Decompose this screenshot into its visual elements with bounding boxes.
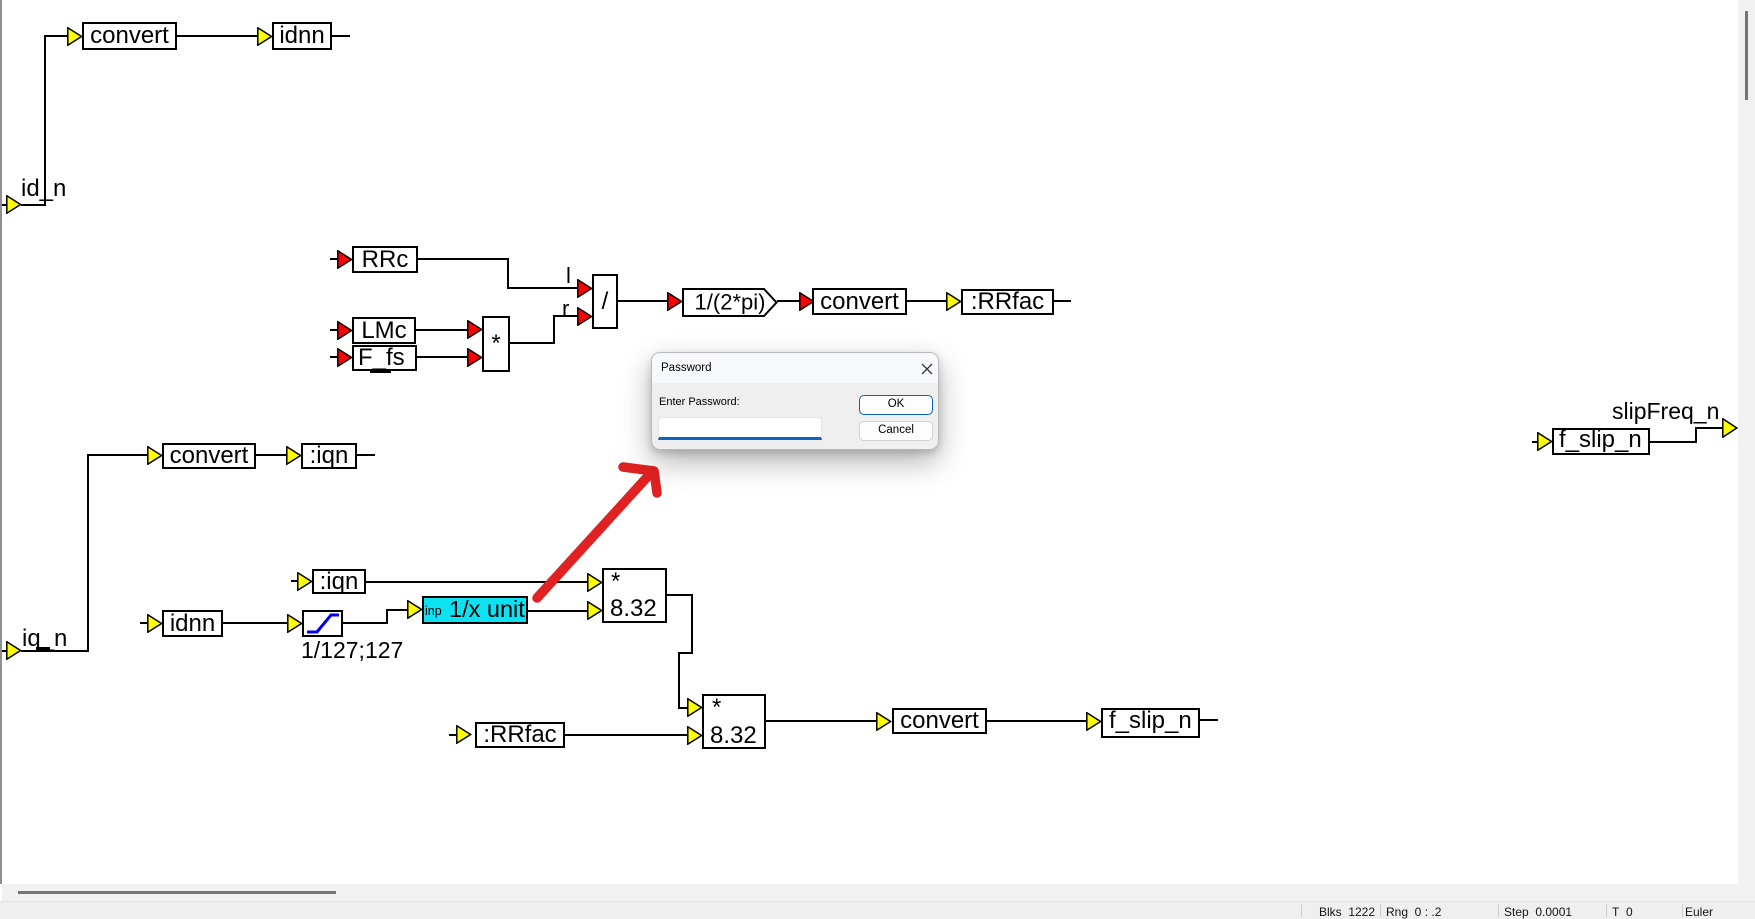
- multiplier M2 lower input triangle: [587, 601, 603, 620]
- divider r input triangle: [577, 307, 593, 326]
- multiplier M3 value 8.32: [710, 724, 757, 748]
- compound block 1/x unit (selected cyan): [422, 596, 528, 624]
- variable LMc: [352, 317, 416, 344]
- gain block 1/(2*pi): [682, 288, 778, 317]
- wire iq_n horizontal: [21, 650, 89, 652]
- wire f_slip_n V6 output stub: [1199, 719, 1218, 721]
- wire M2 out seg5 into M3: [678, 707, 688, 709]
- wire into convert U2: [87, 454, 147, 456]
- 1/x unit input triangle: [407, 600, 423, 619]
- variable :RRfac V5 input triangle: [456, 725, 472, 744]
- variable f_slip_n V6 text: [1109, 709, 1192, 733]
- variable RRc input tick: [330, 258, 337, 260]
- 1/x unit pin label inp: [425, 605, 442, 618]
- dialog password input field: [658, 417, 822, 440]
- wire id_n vertical riser: [44, 35, 46, 206]
- dialog label Enter Password: [659, 397, 740, 408]
- Password dialog window: [651, 352, 939, 450]
- limiter L1 input triangle: [287, 614, 303, 633]
- status bar separator 3: [1498, 904, 1499, 917]
- variable f_slip_n V6: [1101, 708, 1200, 738]
- wire RRc into divider l input: [507, 287, 577, 289]
- convert U2: [162, 443, 256, 469]
- variable F_fs input tick: [330, 356, 337, 358]
- wire id_n horizontal: [21, 204, 46, 206]
- variable F_fs: [352, 345, 417, 371]
- status bar: [0, 901, 1755, 919]
- dialog close button X: [921, 363, 933, 375]
- node iq_n underscore mark: [36, 647, 50, 651]
- wire gain to convert U3: [777, 300, 799, 302]
- divider r pin label: [562, 298, 569, 320]
- multiplier M2 asterisk: [611, 570, 620, 594]
- wire 1/x unit to multiplier M2: [527, 610, 587, 612]
- multiplier M3 lower input triangle: [687, 726, 703, 745]
- multiplier M1 asterisk: [482, 332, 510, 356]
- horizontal scrollbar thumb: [18, 891, 336, 894]
- multiplier M1 upper input triangle: [467, 320, 483, 339]
- limiter L1: [302, 610, 343, 637]
- divider l input triangle: [577, 279, 593, 298]
- wire multiplier M1 out vertical: [553, 315, 555, 344]
- wire convert U3 to :RRfac: [907, 300, 946, 302]
- multiplier M3 asterisk: [712, 696, 721, 720]
- canvas left border: [0, 0, 2, 884]
- variable :RRfac V5: [475, 722, 565, 748]
- status field T 0: [1612, 906, 1633, 918]
- wire into 1/x unit block: [386, 609, 407, 611]
- convert U4: [892, 708, 987, 734]
- wire :RRfac V5 to M3: [565, 734, 687, 736]
- convert U2 input triangle: [147, 446, 163, 465]
- variable idnn V4 input tick: [140, 622, 147, 624]
- wire into convert U1: [44, 35, 68, 37]
- wire convert U2 to :iqn: [256, 454, 286, 456]
- status field Euler: [1685, 906, 1713, 918]
- variable idnn V4 input triangle: [147, 614, 163, 633]
- node iq_n label: [22, 627, 67, 651]
- variable :RRfac: [961, 289, 1054, 315]
- variable f_slip_n V6 input triangle: [1086, 712, 1102, 731]
- variable LMc input triangle: [337, 321, 353, 340]
- node iq_n input triangle: [6, 641, 22, 660]
- wire :iqn V2 output stub: [357, 454, 375, 456]
- divider block /: [592, 274, 618, 329]
- wire to slipFreq_n output triangle: [1695, 427, 1722, 429]
- status field Rng 0:.2: [1386, 906, 1441, 918]
- status bar separator 5: [1682, 904, 1683, 917]
- multiplier M3 8.32: [702, 694, 766, 749]
- multiplier M2 value 8.32: [610, 597, 657, 621]
- variable idnn V4: [162, 610, 223, 637]
- multiplier M1: [482, 316, 510, 372]
- dialog title bar: [652, 353, 938, 383]
- status bar separator 1: [1301, 904, 1302, 917]
- vertical scrollbar track: [1738, 0, 1755, 901]
- variable F_fs input triangle: [337, 348, 353, 367]
- node id_n input pin tick: [0, 204, 7, 206]
- variable f_slip_n V7 input tick: [1532, 441, 1538, 443]
- wire f_slip_n V7 out vertical: [1695, 427, 1697, 443]
- wire LMc to multiplier: [416, 329, 467, 331]
- convert U3: [812, 288, 907, 315]
- wire :RRfac output stub: [1054, 300, 1071, 302]
- variable :iqn V3 input tick: [291, 580, 297, 582]
- variable :iqn V2: [301, 443, 357, 469]
- wire F_fs to multiplier: [417, 356, 467, 358]
- status field Blks 1222: [1319, 906, 1375, 918]
- limiter L1 value label 1/127;127: [301, 639, 403, 662]
- wire M2 out seg2 down: [691, 594, 693, 654]
- variable f_slip_n V7 text: [1559, 428, 1642, 452]
- wire M2 out seg4 down: [678, 652, 680, 709]
- divider l pin label: [566, 265, 571, 287]
- red annotation arrow: [520, 455, 680, 615]
- wire limiter out vertical jog: [386, 609, 388, 624]
- variable :iqn V3: [312, 569, 366, 594]
- variable RRc: [352, 246, 418, 273]
- wire f_slip_n V7 out horizontal: [1650, 441, 1697, 443]
- wire :iqn V3 to multiplier M2: [366, 581, 587, 583]
- wire limiter out horizontal: [343, 622, 388, 624]
- wire multiplier M1 out horizontal: [510, 342, 555, 344]
- wire M2 out seg1: [667, 594, 693, 596]
- variable idnn V1: [272, 22, 332, 50]
- variable RRc input triangle: [337, 250, 353, 269]
- node id_n input triangle: [6, 195, 22, 214]
- dialog title text Password: [661, 363, 712, 375]
- vertical scrollbar thumb: [1745, 11, 1748, 100]
- variable F_fs underscore mark: [370, 369, 391, 373]
- convert U3 input triangle: [799, 292, 815, 311]
- variable :iqn V2 input triangle: [286, 446, 302, 465]
- variable :iqn V3 input triangle: [297, 572, 313, 591]
- node slipFreq_n label: [1612, 400, 1719, 423]
- 1/x unit title text: [449, 598, 525, 622]
- status field Step 0.0001: [1504, 906, 1572, 918]
- node id_n label: [21, 177, 66, 201]
- limiter L1 saturation curve: [304, 612, 341, 635]
- svg-text:1/(2*pi): 1/(2*pi): [695, 290, 766, 315]
- gain 1/(2*pi) input triangle: [667, 292, 683, 311]
- multiplier M2 8.32: [602, 568, 667, 623]
- wire M3 to convert U4: [766, 720, 876, 722]
- status bar separator 4: [1606, 904, 1607, 917]
- wire convert U4 to f_slip_n: [987, 720, 1086, 722]
- wire convert U1 to idnn V1: [177, 35, 257, 37]
- wire idnn V1 output stub: [332, 35, 350, 37]
- variable :RRfac V5 input tick: [449, 734, 456, 736]
- wire into divider r input: [553, 315, 577, 317]
- variable f_slip_n V7 input triangle: [1537, 432, 1553, 451]
- variable LMc input tick: [330, 329, 337, 331]
- variable f_slip_n V7: [1552, 428, 1650, 455]
- wire idnn V4 to limiter: [223, 622, 287, 624]
- variable :RRfac input triangle: [946, 292, 962, 311]
- idnn V1 input triangle: [257, 27, 273, 46]
- multiplier M3 upper input triangle: [687, 698, 703, 717]
- multiplier M1 lower input triangle: [467, 348, 483, 367]
- status bar separator 2: [1380, 904, 1381, 917]
- wire iq_n vertical riser: [87, 454, 89, 652]
- convert U1 input triangle: [67, 27, 83, 46]
- horizontal scrollbar track: [2, 884, 1738, 901]
- dialog OK button: [859, 395, 933, 415]
- convert U1: [82, 22, 177, 50]
- convert U4 input triangle: [876, 712, 892, 731]
- multiplier M2 upper input triangle: [587, 573, 603, 592]
- wire RRc to divider horizontal: [418, 258, 509, 260]
- dialog Cancel button: [859, 421, 933, 441]
- variable F_fs text: [358, 346, 405, 370]
- node iq_n input pin tick: [0, 650, 7, 652]
- node slipFreq_n output triangle: [1722, 418, 1738, 438]
- wire divider output: [618, 300, 667, 302]
- wire M2 out seg3 left: [678, 652, 693, 654]
- wire RRc to divider vertical: [507, 258, 509, 289]
